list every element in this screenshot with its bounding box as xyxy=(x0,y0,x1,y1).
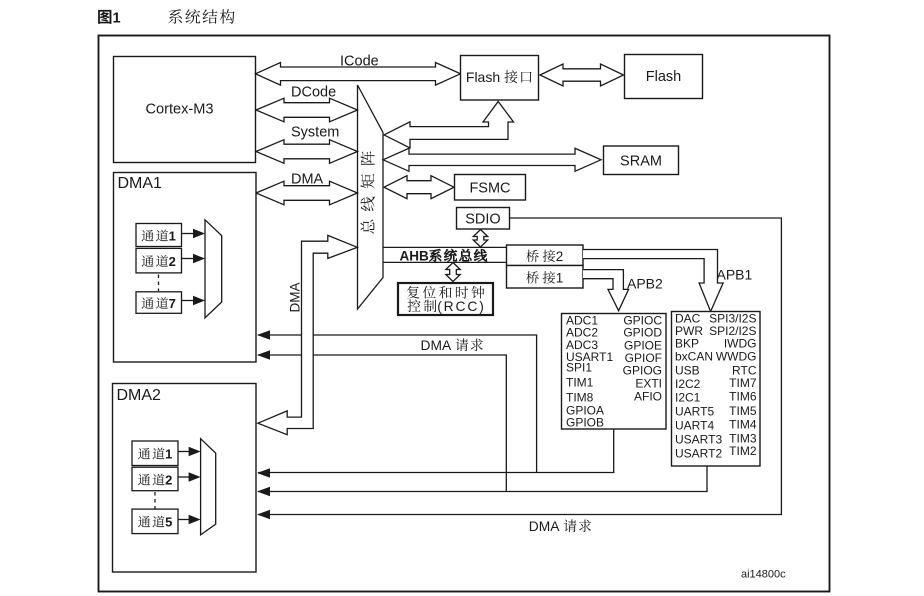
svg-text:2: 2 xyxy=(165,473,172,488)
net A wire: APB2 periph to DMA2 ch (y=472.5) xyxy=(258,429,614,472)
System bus arrow xyxy=(256,140,358,164)
DMA vertical bus (DMA2 to bus matrix) xyxy=(258,235,357,434)
svg-text:TIM1: TIM1 xyxy=(566,375,594,389)
DMA1 ch7 arrowhead xyxy=(193,296,205,305)
net B branch wire to DMA1 (x=506.3) xyxy=(258,355,506,492)
svg-text:SPI1: SPI1 xyxy=(566,361,592,375)
svg-text:I2C1: I2C1 xyxy=(675,391,701,405)
APB2 peripheral list right column xyxy=(623,314,663,404)
DMA1 通道1 box xyxy=(136,224,182,247)
block SRAM xyxy=(604,146,679,175)
label DMA 请求 (lower) xyxy=(529,519,591,534)
svg-text:ICode: ICode xyxy=(340,54,379,70)
label 总线矩阵 (rotated) xyxy=(360,151,374,233)
svg-text:DMA: DMA xyxy=(291,172,324,188)
svg-text:SDIO: SDIO xyxy=(465,212,500,228)
label Flash 接口 xyxy=(466,69,532,85)
svg-text:DMA: DMA xyxy=(529,519,560,534)
DMA2 通道2 box xyxy=(132,467,178,491)
svg-text:TIM2: TIM2 xyxy=(729,444,757,458)
block Flash xyxy=(625,55,703,99)
block RCC xyxy=(398,283,493,315)
svg-text:IWDG: IWDG xyxy=(724,337,757,351)
svg-text:TIM5: TIM5 xyxy=(729,404,757,418)
DMA1 通道2 label xyxy=(142,254,176,269)
svg-text:TIM4: TIM4 xyxy=(729,417,757,431)
svg-text:1: 1 xyxy=(556,271,564,286)
svg-text:EXTI: EXTI xyxy=(635,376,662,390)
DMA1 通道7 box xyxy=(136,292,182,314)
block 桥接2 xyxy=(507,245,584,266)
bus matrix polygon xyxy=(358,85,384,309)
ICode bus arrow xyxy=(256,63,461,86)
svg-text:DMA: DMA xyxy=(421,338,452,353)
SDIO to AHB double arrow xyxy=(473,230,487,248)
svg-text:2: 2 xyxy=(169,254,176,269)
svg-text:APB1: APB1 xyxy=(717,267,753,283)
svg-text:Flash: Flash xyxy=(646,69,681,85)
label 桥接1 xyxy=(526,271,563,286)
label 控制(RCC) xyxy=(408,299,486,314)
svg-text:2: 2 xyxy=(556,249,564,264)
svg-text:APB2: APB2 xyxy=(627,276,663,292)
DMA1 通道7 label xyxy=(142,296,176,311)
svg-text:BKP: BKP xyxy=(675,337,699,351)
svg-text:DMA1: DMA1 xyxy=(118,175,163,192)
DMA2 通道1 box xyxy=(132,441,178,466)
DMA bus arrow xyxy=(256,181,358,205)
DMA1 ch1 arrowhead xyxy=(193,229,205,238)
svg-text:DMA: DMA xyxy=(287,283,302,313)
APB1 peripheral list right column xyxy=(709,312,757,459)
net C wire: SDIO loop to DMA2 ch (y=514.5) xyxy=(258,218,781,515)
svg-text:5: 5 xyxy=(165,515,172,530)
svg-text:ai14800c: ai14800c xyxy=(741,569,786,581)
DMA1 通道1 label xyxy=(142,229,176,244)
svg-text:TIM6: TIM6 xyxy=(729,390,757,404)
svg-text:AFIO: AFIO xyxy=(634,390,662,404)
svg-text:Cortex-M3: Cortex-M3 xyxy=(145,102,213,118)
SRAM bus arrow xyxy=(383,148,601,171)
net B arrowhead into DMA1 xyxy=(257,350,270,359)
DMA1 mux trapezoid xyxy=(205,220,222,318)
block APB1 peripherals xyxy=(672,312,761,467)
DMA2 ch5 wire xyxy=(178,519,189,521)
svg-text:USB: USB xyxy=(675,363,700,377)
label 桥接2 xyxy=(526,249,563,264)
svg-text:AHB: AHB xyxy=(400,249,429,264)
net C arrowhead into DMA2 xyxy=(257,510,270,519)
DMA2 通道5 label xyxy=(138,515,172,530)
svg-text:GPIOB: GPIOB xyxy=(566,416,604,430)
label AHB系统总线 xyxy=(400,249,487,264)
flash-interface feed bus (matrix to Flash interface) xyxy=(384,102,514,149)
block Flash 接口 xyxy=(461,56,539,101)
svg-text:Flash: Flash xyxy=(466,69,500,85)
label 复位和时钟 xyxy=(407,286,484,299)
net A arrowhead into DMA1 xyxy=(257,330,270,339)
svg-text:1: 1 xyxy=(165,447,172,462)
DCode bus arrow xyxy=(256,98,358,122)
net A arrowhead into DMA2 xyxy=(257,468,270,477)
block SDIO xyxy=(457,208,510,230)
DMA2 channel dashed line xyxy=(154,492,156,509)
net A branch wire to DMA1 (x=536.6) xyxy=(258,335,537,473)
APB2 bus with down arrow xyxy=(583,270,629,311)
title 图1 xyxy=(98,10,120,27)
svg-text:UART5: UART5 xyxy=(675,405,714,419)
svg-text:7: 7 xyxy=(169,296,176,311)
label DMA 请求 (upper) xyxy=(421,338,483,353)
AHB to RCC double arrow xyxy=(446,263,460,282)
block DMA2 xyxy=(113,384,257,573)
svg-text:System: System xyxy=(291,125,339,141)
svg-text:(RCC): (RCC) xyxy=(437,299,486,314)
block APB2 peripherals xyxy=(562,314,667,430)
svg-text:DMA2: DMA2 xyxy=(117,387,162,404)
title 系统结构 xyxy=(168,9,234,24)
svg-text:1: 1 xyxy=(113,11,121,27)
svg-text:bxCAN: bxCAN xyxy=(675,350,713,364)
svg-text:I2C2: I2C2 xyxy=(675,377,701,391)
svg-text:GPIOD: GPIOD xyxy=(623,326,662,340)
svg-text:TIM8: TIM8 xyxy=(566,391,594,405)
block Cortex-M3 xyxy=(114,57,256,163)
DMA2 ch5 arrowhead xyxy=(189,515,201,524)
DMA2 ch2 wire xyxy=(178,476,189,478)
svg-text:TIM7: TIM7 xyxy=(729,376,757,390)
net B arrowhead into DMA2 xyxy=(257,487,270,496)
FSMC bus arrow xyxy=(384,176,454,199)
DMA2 通道2 label xyxy=(138,473,172,488)
block FSMC xyxy=(455,175,526,201)
DMA1 ch7 wire xyxy=(182,300,194,302)
DMA1 通道2 box xyxy=(136,248,182,273)
outer frame xyxy=(99,36,830,592)
DMA1 ch2 wire xyxy=(182,258,194,260)
svg-text:USART3: USART3 xyxy=(675,433,722,447)
AHB bus line top xyxy=(383,246,506,248)
svg-text:WWDG: WWDG xyxy=(716,350,757,364)
DMA2 通道5 box xyxy=(132,509,178,533)
svg-text:1: 1 xyxy=(169,229,176,244)
APB1 bus with down arrow xyxy=(583,250,723,312)
svg-text:FSMC: FSMC xyxy=(469,181,510,197)
svg-text:DCode: DCode xyxy=(291,85,336,101)
net B wire: APB1 periph to DMA2 ch (y=491.5) xyxy=(258,466,707,491)
DMA2 ch1 arrowhead xyxy=(189,447,201,456)
AHB bus line bottom xyxy=(383,261,506,263)
block 桥接1 xyxy=(507,266,584,289)
Flash iface to Flash double arrow xyxy=(540,64,624,86)
svg-text:USART2: USART2 xyxy=(675,446,722,460)
block DMA1 xyxy=(114,173,257,363)
DMA1 channel dashed line xyxy=(158,275,160,292)
svg-text:UART4: UART4 xyxy=(675,418,714,432)
DMA2 ch1 wire xyxy=(178,451,189,453)
APB2 peripheral list left column xyxy=(566,314,613,430)
DMA2 mux trapezoid xyxy=(201,439,216,535)
DMA2 通道1 label xyxy=(138,447,172,462)
svg-text:GPIOG: GPIOG xyxy=(623,363,662,377)
DMA2 ch2 arrowhead xyxy=(189,472,201,481)
svg-text:SRAM: SRAM xyxy=(620,154,662,170)
DMA1 ch1 wire xyxy=(182,233,194,235)
DMA1 ch2 arrowhead xyxy=(193,254,205,263)
APB1 peripheral list left column xyxy=(675,312,722,461)
